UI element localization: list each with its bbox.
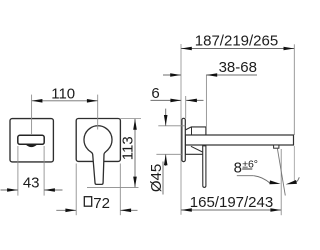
svg-text:165/197/243: 165/197/243 <box>190 194 273 211</box>
svg-text:6: 6 <box>151 85 159 102</box>
svg-text:187/219/265: 187/219/265 <box>195 33 278 50</box>
svg-text:38-68: 38-68 <box>219 59 257 76</box>
svg-text:72: 72 <box>93 195 110 212</box>
svg-text:43: 43 <box>23 175 40 192</box>
svg-text:Ø45: Ø45 <box>148 164 165 192</box>
svg-text:8: 8 <box>234 160 242 177</box>
svg-text:110: 110 <box>51 85 75 102</box>
svg-text:113: 113 <box>120 136 137 160</box>
